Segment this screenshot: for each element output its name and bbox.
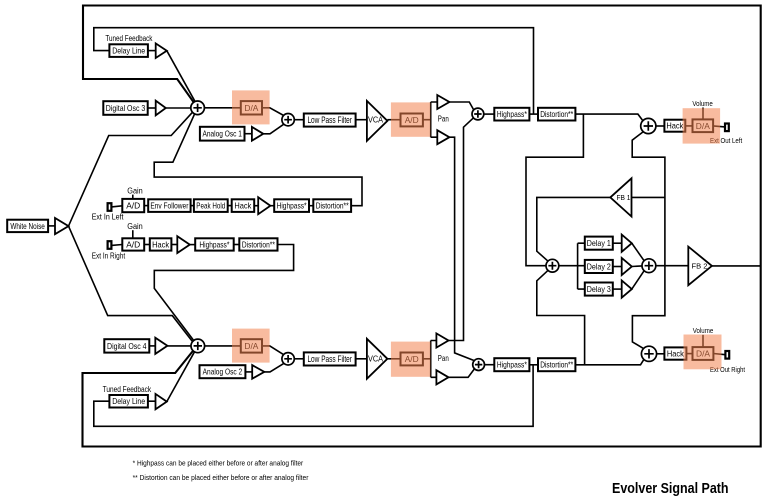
summing node right output mixer bbox=[641, 346, 656, 361]
svg-text:Env Follower: Env Follower bbox=[150, 201, 188, 211]
svg-text:Pan: Pan bbox=[438, 354, 449, 363]
wire analog osc 1 to amp bbox=[245, 133, 252, 135]
svg-text:Distortion**: Distortion** bbox=[316, 201, 350, 211]
svg-text:Ext In Right: Ext In Right bbox=[92, 251, 126, 260]
wire FB1 input from delay output bbox=[632, 196, 665, 198]
svg-text:Delay Line: Delay Line bbox=[112, 396, 145, 406]
wire delay input mixer to delay lines bbox=[559, 243, 585, 289]
wire hack to output D/A right bbox=[686, 353, 692, 355]
block D/A (left osc) bbox=[241, 101, 262, 114]
svg-text:Highpass*: Highpass* bbox=[497, 109, 528, 119]
svg-text:Delay 1: Delay 1 bbox=[587, 238, 611, 248]
block White Noise bbox=[7, 220, 48, 232]
svg-text:Ext In Left: Ext In Left bbox=[92, 213, 124, 222]
svg-text:Hack: Hack bbox=[666, 121, 684, 131]
svg-text:Distortion**: Distortion** bbox=[540, 360, 574, 370]
wire pan right-to-left up to left pan mixer bbox=[449, 118, 474, 341]
wire pan right-to-right into right pan mixer bbox=[449, 369, 475, 377]
wire analog osc 2 amp to filter-input summer bbox=[264, 363, 284, 372]
wire delay-line amp to right channel mixer bbox=[167, 352, 195, 402]
summing node filter input left bbox=[282, 114, 294, 126]
svg-text:Tuned Feedback: Tuned Feedback bbox=[105, 34, 153, 43]
wire summer to low pass filter right bbox=[294, 358, 304, 360]
wire ext in left chain return to left mixer bbox=[154, 114, 362, 206]
svg-text:White Noise: White Noise bbox=[10, 221, 45, 231]
svg-text:VCA: VCA bbox=[368, 115, 384, 124]
summing node left output mixer bbox=[641, 118, 656, 133]
wire pan left-to-left into left pan mixer bbox=[449, 102, 473, 110]
block D/A (right out) bbox=[693, 347, 714, 360]
svg-text:Peak Hold: Peak Hold bbox=[196, 201, 225, 211]
wire VCA to A/D bbox=[387, 119, 400, 121]
wire D/A to left output jack bbox=[713, 126, 725, 127]
wire low pass filter to VCA bbox=[356, 119, 367, 121]
wire FB1 output to delay input mixer bbox=[537, 197, 611, 261]
svg-text:Distortion**: Distortion** bbox=[540, 109, 574, 119]
connector Ext In Left jack bbox=[108, 203, 112, 211]
block Peak Hold bbox=[194, 199, 228, 212]
svg-text:Highpass*: Highpass* bbox=[497, 360, 528, 370]
wire pan left-to-right down to right pan mixer bbox=[449, 137, 474, 360]
wire gain to A/D (right) bbox=[132, 230, 134, 238]
wire delay 2 amp to delay output mixer bbox=[632, 265, 642, 268]
wire A/D to pan split left bbox=[423, 102, 437, 137]
wire distortion to right output mixer bbox=[575, 359, 644, 364]
wire highpass to distortion (left) bbox=[529, 113, 538, 115]
wire hack to amp (ext in left) bbox=[254, 205, 258, 207]
block Digital Osc 4 bbox=[104, 339, 149, 352]
block Highpass* (ext in right) bbox=[195, 238, 234, 250]
block Low Pass Filter (left) bbox=[304, 114, 356, 127]
svg-text:Tuned Feedback: Tuned Feedback bbox=[103, 385, 152, 394]
svg-text:** Distortion can be placed ei: ** Distortion can be placed either befor… bbox=[133, 473, 309, 482]
summing node right channel mixer bbox=[191, 339, 205, 353]
block A/D (right post-VCA) bbox=[401, 353, 423, 366]
svg-text:* Highpass can be placed eithe: * Highpass can be placed either before o… bbox=[133, 458, 304, 467]
block Env Follower bbox=[148, 199, 190, 212]
highlight overlay on D/A left osc bbox=[232, 90, 270, 124]
svg-text:Volume: Volume bbox=[692, 99, 713, 108]
svg-text:Distortion**: Distortion** bbox=[242, 240, 276, 250]
svg-text:Hack: Hack bbox=[667, 349, 685, 359]
block Delay 2 bbox=[585, 260, 613, 273]
amp after Analog Osc 1 bbox=[252, 127, 263, 141]
VCA left bbox=[367, 101, 388, 141]
block Hack (right out) bbox=[664, 347, 686, 359]
svg-text:Volume: Volume bbox=[693, 326, 714, 335]
wire left tap to delay section input bbox=[526, 114, 583, 266]
block Low Pass Filter (right) bbox=[304, 352, 356, 365]
wire delay 2 to amp bbox=[613, 266, 622, 268]
summing node delay input mixer bbox=[546, 259, 559, 272]
wire D/A to filter-input summer bbox=[262, 108, 284, 116]
wire digital osc 3 to amp bbox=[148, 107, 156, 109]
block D/A (right osc) bbox=[241, 339, 262, 352]
svg-text:Hack: Hack bbox=[152, 240, 170, 250]
summing node delay output mixer bbox=[642, 259, 656, 273]
summing node left channel mixer bbox=[191, 101, 205, 115]
highlight overlay on A/D left post-VCA bbox=[391, 102, 431, 136]
wire delay output mixer to FB2 bbox=[656, 265, 689, 267]
block Analog Osc 1 bbox=[200, 127, 245, 141]
wire highpass to distortion (right) bbox=[529, 364, 538, 366]
highlight overlay on D/A right osc bbox=[232, 329, 270, 363]
summing node filter input right bbox=[282, 353, 294, 365]
wire delay 1 to amp bbox=[613, 242, 622, 244]
wire VCA to A/D right bbox=[387, 358, 400, 360]
block Distortion** (left) bbox=[538, 108, 575, 121]
VCA right bbox=[367, 339, 388, 379]
wire hack to output D/A left bbox=[685, 125, 692, 127]
pan amp left-to-left bbox=[437, 95, 449, 109]
wire delay 3 amp to delay output mixer bbox=[632, 270, 645, 289]
svg-text:Analog Osc 2: Analog Osc 2 bbox=[203, 367, 243, 377]
amp after Delay 3 bbox=[622, 281, 632, 298]
svg-text:Gain: Gain bbox=[127, 187, 143, 196]
wire white noise to right mixer bbox=[69, 226, 194, 342]
block Delay Line (right tuned feedback) bbox=[109, 395, 147, 408]
svg-text:A/D: A/D bbox=[126, 240, 140, 250]
svg-text:Digital Osc 3: Digital Osc 3 bbox=[106, 103, 146, 113]
wire A/D to env follower bbox=[144, 205, 148, 207]
block Delay 1 bbox=[585, 237, 613, 250]
highlight overlay on A/D right post-VCA bbox=[391, 342, 431, 377]
block Distortion** (right) bbox=[538, 358, 575, 371]
wire white noise to left mixer bbox=[69, 112, 193, 226]
wire digital osc 4 to amp bbox=[149, 345, 155, 347]
wire hack to amp (ext in right) bbox=[171, 244, 177, 246]
svg-text:Delay Line: Delay Line bbox=[112, 46, 145, 56]
feedback amp FB 2 bbox=[688, 247, 712, 286]
highlight overlay on D/A right out bbox=[684, 335, 722, 370]
amp ext in left bbox=[258, 197, 270, 214]
wire analog osc 2 to amp bbox=[245, 371, 252, 373]
block Distortion** (ext in left) bbox=[313, 199, 351, 212]
summing node right pan mixer bbox=[473, 359, 485, 371]
wire ext in right chain return to right mixer bbox=[154, 245, 293, 341]
amp after delay line (left) bbox=[156, 43, 167, 58]
wire ext in right jack to A/D bbox=[111, 244, 122, 247]
wire delay 3 to amp bbox=[613, 288, 622, 290]
block Delay 3 bbox=[585, 283, 613, 296]
wire distortion to left output mixer bbox=[575, 114, 643, 121]
amp after White Noise bbox=[55, 218, 69, 234]
block Analog Osc 2 bbox=[200, 365, 246, 378]
summing node left pan mixer bbox=[472, 108, 484, 120]
connector Ext In Right jack bbox=[108, 241, 112, 249]
wire gain to A/D (left) bbox=[132, 195, 134, 199]
svg-text:Delay 3: Delay 3 bbox=[587, 284, 611, 294]
wire white noise to amp bbox=[48, 225, 55, 227]
wire right tap to delay section input bbox=[537, 270, 585, 365]
block Hack (left out) bbox=[664, 120, 685, 132]
svg-text:Highpass*: Highpass* bbox=[277, 201, 308, 211]
block Hack (ext in left) bbox=[232, 199, 255, 212]
amp after Delay 2 bbox=[622, 258, 632, 275]
svg-text:VCA: VCA bbox=[368, 355, 384, 364]
amp after Analog Osc 2 bbox=[252, 365, 264, 379]
amp after Delay 1 bbox=[622, 235, 632, 252]
block Highpass* (ext in left) bbox=[274, 199, 309, 212]
block D/A (left out) bbox=[693, 119, 714, 132]
wire D/A to right output jack bbox=[713, 354, 725, 355]
pan amp right-to-left bbox=[436, 333, 448, 347]
block Highpass* (right) bbox=[494, 358, 529, 371]
connector Ext Out Left jack bbox=[725, 124, 729, 132]
wire right mixer to D/A bbox=[205, 345, 241, 347]
wire FB2 output to outer feedback loop bbox=[712, 265, 761, 267]
wire delay line to amp (right) bbox=[148, 400, 156, 402]
block Delay Line (left tuned feedback) bbox=[109, 44, 147, 57]
svg-text:Highpass*: Highpass* bbox=[199, 240, 230, 250]
wire highpass to distortion (ext in left) bbox=[309, 205, 313, 207]
feedback amp FB 1 bbox=[610, 178, 631, 216]
block A/D (ext in right) bbox=[122, 238, 144, 250]
svg-text:Analog Osc 1: Analog Osc 1 bbox=[202, 129, 242, 139]
wire amp to highpass (ext in left) bbox=[270, 205, 274, 207]
svg-text:Low Pass Filter: Low Pass Filter bbox=[307, 115, 352, 125]
wire right pan mixer to highpass bbox=[485, 364, 495, 366]
wire amp to right mixer bbox=[167, 345, 191, 347]
wire amp to highpass (ext in right) bbox=[190, 244, 195, 246]
wire low pass filter to VCA right bbox=[356, 358, 367, 360]
block Highpass* (left) bbox=[494, 108, 529, 121]
block Hack (ext in right) bbox=[150, 238, 172, 250]
connector Ext Out Right jack bbox=[725, 351, 729, 359]
svg-text:Evolver Signal Path: Evolver Signal Path bbox=[612, 480, 729, 497]
wire left mixer to D/A bbox=[204, 107, 240, 109]
amp ext in right bbox=[177, 236, 190, 253]
wire outer feedback loop frame bbox=[83, 6, 761, 447]
wire A/D to pan split right bbox=[423, 341, 437, 378]
wire left pan mixer to highpass bbox=[484, 113, 495, 115]
wire env follower to peak hold bbox=[191, 205, 194, 207]
wire tuned-feedback loop right (tap to delay line input) bbox=[94, 365, 533, 427]
block Digital Osc 3 bbox=[103, 101, 147, 115]
svg-text:FB 1: FB 1 bbox=[617, 193, 631, 202]
highlight overlay on D/A left out bbox=[683, 108, 721, 143]
wire D/A to filter-input summer right bbox=[262, 346, 284, 355]
wire summer to low pass filter bbox=[294, 119, 304, 121]
block Distortion** (ext in right) bbox=[239, 238, 277, 250]
wire peak hold to hack bbox=[228, 205, 232, 207]
wire delay-line amp to left channel mixer bbox=[167, 51, 195, 102]
svg-text:Gain: Gain bbox=[127, 222, 143, 231]
wire amp to left mixer bbox=[166, 107, 191, 109]
wire left output mixer to hack bbox=[656, 125, 665, 127]
svg-text:FB 2: FB 2 bbox=[692, 262, 708, 271]
wire highpass to distortion (ext in right) bbox=[234, 244, 240, 246]
svg-text:Hack: Hack bbox=[234, 201, 252, 211]
svg-text:Delay 2: Delay 2 bbox=[587, 261, 611, 271]
wire delay wet return to both output mixers bbox=[632, 132, 665, 349]
wire tuned-feedback loop left (tap between Highpass and Distortion to delay line input) bbox=[94, 28, 534, 114]
wire delay 1 amp to delay output mixer bbox=[632, 243, 645, 261]
wire right output mixer to hack bbox=[657, 353, 665, 355]
svg-text:Pan: Pan bbox=[438, 115, 449, 124]
wire volume control to D/A right bbox=[702, 335, 704, 347]
pan amp left-to-right bbox=[437, 130, 449, 144]
block A/D (ext in left) bbox=[122, 199, 144, 212]
svg-text:Low Pass Filter: Low Pass Filter bbox=[307, 354, 352, 364]
wire ext in left jack to A/D bbox=[111, 206, 122, 207]
pan amp right-to-right bbox=[436, 370, 448, 384]
wire volume control to D/A left bbox=[702, 108, 704, 120]
wire delay line to amp bbox=[148, 50, 156, 52]
block A/D (left post-VCA) bbox=[401, 114, 423, 127]
wire A/D to hack (ext in right) bbox=[144, 244, 150, 246]
amp after Digital Osc 4 bbox=[155, 338, 167, 354]
amp after Digital Osc 3 bbox=[156, 101, 166, 116]
wire analog osc 1 amp to filter-input summer bbox=[263, 124, 284, 134]
svg-text:Digital Osc 4: Digital Osc 4 bbox=[107, 341, 147, 351]
svg-text:A/D: A/D bbox=[126, 201, 140, 211]
amp after delay line (right) bbox=[156, 394, 167, 409]
